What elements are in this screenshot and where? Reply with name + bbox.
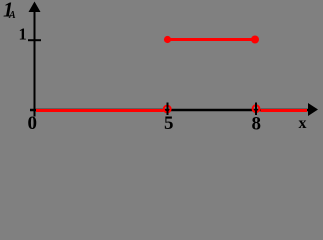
svg-text:0: 0 bbox=[28, 113, 38, 134]
svg-text:8: 8 bbox=[252, 114, 262, 135]
svg-text:x: x bbox=[299, 115, 307, 132]
svg-text:1: 1 bbox=[19, 24, 27, 43]
svg-text:5: 5 bbox=[164, 113, 174, 134]
svg-text:A: A bbox=[8, 10, 16, 21]
